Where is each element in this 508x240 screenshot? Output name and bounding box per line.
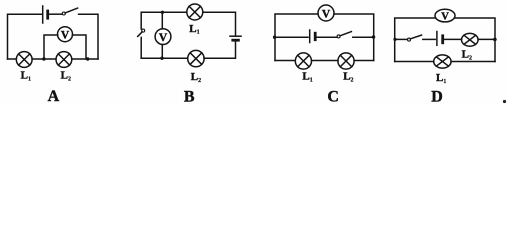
wire top-left segment D [395,18,435,62]
junction node B-top [161,11,164,14]
wire switch-to-battery D [423,38,435,40]
svg-text:V: V [61,30,70,42]
battery cell A: long plate [42,6,44,23]
switch S pivot A [62,12,65,15]
wire battery-to-switch A [49,13,62,15]
wire switch-to-corner A [79,14,98,59]
voltmeter branch top wire B [161,12,163,29]
wire lamp-to-corner D [451,61,495,63]
wire bottom-left B [141,57,188,59]
wire top-left segment C [275,14,318,61]
wire between lamps A [32,58,56,60]
lamp L1 D [434,55,451,68]
switch S pivot C [337,35,340,38]
svg-text:A: A [48,88,60,104]
wire lamp-to-right D [478,38,495,40]
switch S pivot D [408,38,411,41]
svg-text:L2: L2 [462,49,472,62]
voltmeter U3 circle C [318,5,334,21]
switch S blade C [340,32,351,36]
svg-text:L1: L1 [436,72,446,85]
stray ink dot page corner [503,100,506,103]
wire lamp2-to-corner C [354,60,374,62]
wire bottom-left A [8,58,17,60]
wire battery-to-switch C [317,36,337,38]
voltmeter branch bottom wire B [161,45,163,59]
svg-text:B: B [184,89,195,104]
wire bottom-left D [395,61,434,63]
svg-text:L1: L1 [302,71,312,84]
lamp L1 C [295,53,311,69]
wire bottom-left C [275,60,295,62]
wire switch-to-right C [353,36,374,38]
switch S blade B [138,32,143,37]
junction node D-left [393,38,396,41]
junction node D-right [493,38,497,42]
battery cell C: long plate [309,30,311,43]
lamp L2 C [338,53,354,69]
svg-text:V: V [322,9,331,21]
junction node B-bottom [160,57,163,60]
wire top-left segment B [141,12,186,29]
svg-text:V: V [441,12,449,23]
lamp L1 A [16,52,32,68]
junction node A-left [42,57,45,60]
svg-text:L2: L2 [61,70,71,83]
voltmeter branch wire right A [72,35,86,59]
switch S blade D [410,35,421,39]
battery cell C: short plate [314,33,317,40]
lamp L1 B [187,4,203,20]
svg-text:L1: L1 [189,23,199,36]
voltmeter U1 circle A [58,27,73,42]
battery cell B: long plate [230,35,241,37]
battery cell B: short plate [233,39,239,42]
lamp L2 B [188,50,204,66]
svg-text:L2: L2 [191,71,201,84]
battery cell A: short plate [46,11,49,18]
wire top-right segment D [455,18,495,62]
switch S blade A [65,8,77,13]
middle branch left stub D [395,38,408,40]
switch S pivot B [142,29,145,32]
voltmeter branch wire A [44,35,58,59]
battery cell D: long plate [436,32,438,46]
battery cell D: short plate [441,36,444,43]
svg-text:V: V [159,32,168,44]
wire lamp2-to-corner A [72,58,98,60]
junction node A-right [86,57,89,60]
lamp L2 A [56,52,72,68]
lamp L2 D [462,33,479,46]
middle branch left wire C [275,36,308,38]
svg-text:C: C [327,89,339,104]
svg-text:L1: L1 [21,70,31,83]
wire top-left segment A [8,14,43,59]
wire lower-left B [140,37,142,58]
wire lamp-to-corner B [203,12,236,35]
svg-text:D: D [431,89,443,104]
wire battery-to-bottom B [204,42,236,59]
wire battery-to-lamp D [444,38,461,40]
junction node C-left [273,36,276,39]
voltmeter U2 circle B [155,29,171,45]
voltmeter U4 ellipse D [435,9,455,22]
wire top-right segment C [334,14,374,61]
svg-text:L2: L2 [343,71,353,84]
junction node C-right [372,35,376,39]
wire between lamps C [312,60,339,62]
